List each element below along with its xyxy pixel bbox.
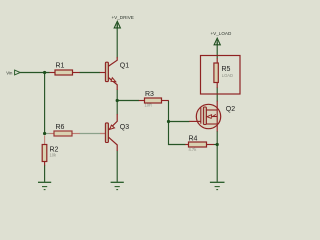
terminal Vin (6, 70, 20, 75)
node C junction dot (116, 99, 119, 102)
value label 4.7k of R4 (189, 147, 198, 152)
wire node C to R3 (117, 100, 139, 102)
wire R6 to Q3 base (muted) (80, 133, 101, 135)
svg-text:Q2: Q2 (226, 106, 235, 113)
wire +V_DRIVE to Q1 collector (116, 25, 118, 58)
node A junction dot (43, 71, 46, 74)
wire junction B to R6 (muted) (45, 133, 50, 135)
svg-text:Q1: Q1 (120, 63, 129, 70)
wire R3 right corner down through node D to R4 row (169, 101, 186, 145)
wire +V_LOAD down into load box to R5 (216, 42, 218, 59)
wire R4 to node E (214, 144, 218, 146)
transistor Q1 (100, 57, 129, 90)
wire Q3 collector to ground (116, 151, 118, 182)
svg-text:10k: 10k (50, 152, 58, 157)
svg-text:4.7k: 4.7k (189, 147, 198, 152)
wire node D to Q2 gate (169, 121, 190, 123)
resistor R4 (185, 136, 214, 147)
value label 10k of R2 (50, 152, 58, 157)
svg-text:LOAD: LOAD (222, 73, 233, 78)
wire R1 to Q1 base (80, 72, 101, 74)
resistor R3 (139, 91, 169, 103)
svg-text:+V_LOAD: +V_LOAD (211, 31, 232, 36)
node D junction dot (167, 120, 170, 123)
ground below Q3 (111, 182, 124, 189)
wire Vin to junction A and R1 (20, 72, 50, 74)
wire Q2 source down to ground through node E (216, 131, 218, 182)
power +V_LOAD (211, 31, 232, 45)
value label 10R of R3 (145, 103, 153, 108)
wire Q1 emitter to Q3 emitter through node C (116, 90, 118, 115)
resistor R5 (214, 58, 231, 88)
transistor Q3 (100, 114, 129, 151)
wire R5 to Q2 drain (216, 88, 218, 102)
ground below Q2 (210, 182, 225, 189)
svg-text:+V_DRIVE: +V_DRIVE (112, 15, 134, 20)
load box (201, 56, 241, 95)
svg-text:R1: R1 (56, 63, 65, 70)
node B junction dot (43, 132, 46, 135)
ground below R2 (38, 182, 51, 189)
value label LOAD of R5 (222, 73, 233, 78)
svg-text:R3: R3 (145, 91, 154, 98)
resistor R6 (muted) (50, 124, 106, 136)
svg-text:10R: 10R (145, 103, 153, 108)
svg-text:R6: R6 (56, 124, 65, 131)
wire junction A down to junction B (44, 73, 46, 134)
power +V_DRIVE (112, 15, 134, 28)
node E junction dot (216, 143, 219, 146)
svg-text:Vin: Vin (6, 70, 13, 75)
wire R2 bottom to ground (44, 165, 46, 182)
resistor R1 (50, 63, 80, 75)
svg-text:R4: R4 (189, 136, 198, 143)
svg-text:Q3: Q3 (120, 124, 129, 131)
svg-text:R5: R5 (222, 66, 231, 73)
resistor R2 (42, 136, 58, 166)
transistor Q2 (MOSFET) (189, 101, 235, 132)
